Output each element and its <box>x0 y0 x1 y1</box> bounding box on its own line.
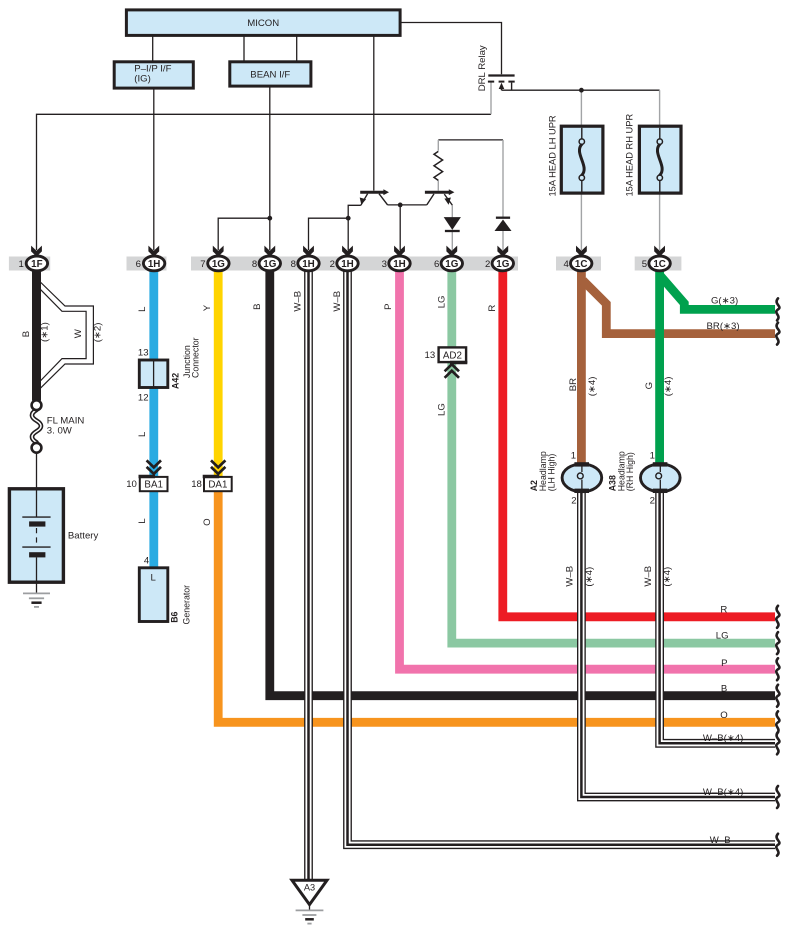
connector oval 2 1H <box>337 256 358 271</box>
svg-text:P: P <box>383 303 394 309</box>
svg-text:W–B(∗4): W–B(∗4) <box>703 733 744 744</box>
fuse 15A HEAD RH UPR box <box>639 126 681 193</box>
svg-text:BA1: BA1 <box>144 480 163 491</box>
node arrow 1F <box>31 246 42 257</box>
wire BEAN I/F to connector 8 1G <box>269 86 271 250</box>
relay DRL: gate bar <box>488 74 514 76</box>
relay DRL: middle element bar <box>499 81 505 83</box>
svg-text:MICON: MICON <box>247 18 279 29</box>
svg-text:L: L <box>137 518 148 524</box>
svg-text:15A HEAD LH UPR: 15A HEAD LH UPR <box>547 115 557 196</box>
svg-text:R: R <box>720 605 727 616</box>
break symbol W-B(*4) b <box>776 786 779 808</box>
wire MICON to BEAN I/F left <box>243 35 245 61</box>
node arrow 8 1H <box>303 246 314 257</box>
svg-text:18: 18 <box>191 479 202 490</box>
headlamp A38 (RH High) <box>641 464 681 492</box>
connector oval 5 1C <box>649 256 670 271</box>
svg-text:1H: 1H <box>393 259 406 270</box>
ground A3 triangle <box>292 880 327 904</box>
wire relay control to connector 1 1F <box>37 114 492 250</box>
wire W-B from connector 8 1H to ground A3 <box>304 269 313 880</box>
wire relay output to fuses <box>502 89 660 91</box>
wire Y yellow from connector 7 1G to DA1 <box>214 269 223 478</box>
node arrow 5 1C <box>654 246 665 257</box>
generator B6 box <box>139 568 168 622</box>
wire W option bypass outline at 1F <box>40 282 93 388</box>
connector oval 6 1G <box>441 256 462 271</box>
svg-text:5: 5 <box>642 259 647 270</box>
transistor Q2 emitter diagonal with arrow <box>444 194 452 205</box>
connector oval 7 1G <box>208 256 229 271</box>
wire relay output to fuse LH (gray) <box>580 90 582 126</box>
svg-text:1C: 1C <box>575 259 588 270</box>
wire junction to connector 3 1H <box>399 205 401 250</box>
svg-text:(∗1): (∗1) <box>40 322 51 342</box>
svg-text:8: 8 <box>252 259 257 270</box>
break symbol W-B(*4) a <box>776 732 779 754</box>
svg-text:2: 2 <box>330 259 335 270</box>
box P-I/P I/F (IG) <box>114 62 193 88</box>
svg-text:O: O <box>202 518 213 525</box>
svg-text:B: B <box>21 331 32 337</box>
wire B thick from connector 1 1F to fusible link <box>32 269 41 401</box>
wire resistor to diode D2 <box>438 139 503 141</box>
wire Q1 collector to Q2 <box>388 204 427 206</box>
wire L cyan from connector 6 1H to generator <box>149 269 158 569</box>
wire P pink from connector 3 1H to right edge <box>400 269 776 669</box>
connector BA1 box <box>140 477 168 491</box>
svg-text:DA1: DA1 <box>208 480 227 491</box>
wire MICON to DRL relay drain <box>400 23 501 75</box>
svg-text:G(∗3): G(∗3) <box>711 296 738 307</box>
break symbol O <box>776 711 779 733</box>
diode D2 (cathode up) <box>496 217 510 219</box>
svg-text:(∗4): (∗4) <box>663 377 674 397</box>
svg-text:7: 7 <box>200 259 205 270</box>
svg-text:2: 2 <box>485 259 490 270</box>
transistor Q2 base diagonal <box>427 194 434 205</box>
junction dot relay output <box>579 88 584 93</box>
svg-text:4: 4 <box>144 555 150 566</box>
svg-text:L: L <box>137 431 148 437</box>
wire diode D2 top lead (gray) <box>502 140 504 218</box>
svg-text:1C: 1C <box>653 259 666 270</box>
svg-text:3. 0W: 3. 0W <box>47 426 73 437</box>
wire W-B from headlamp LH to right edge <box>581 491 775 797</box>
svg-text:1G: 1G <box>496 259 509 270</box>
svg-text:(IG): (IG) <box>134 74 151 85</box>
svg-text:W–B: W–B <box>293 291 304 312</box>
svg-text:(∗4): (∗4) <box>587 377 598 397</box>
wire R red from connector 2 1G to right edge <box>503 269 775 617</box>
transistor Q1 bar <box>360 191 383 194</box>
svg-text:W: W <box>73 328 84 338</box>
chevrons into AD2 (upward) <box>445 364 459 371</box>
svg-text:1: 1 <box>571 451 576 462</box>
transistor Q2 bar <box>425 191 449 194</box>
break symbol R <box>776 606 779 628</box>
svg-text:W–B: W–B <box>332 291 343 312</box>
headlamp A2 (LH High) <box>562 464 602 492</box>
wire BR(*3) branch to right edge <box>583 281 775 334</box>
node arrow 6 1H <box>148 246 159 257</box>
svg-text:1G: 1G <box>445 259 458 270</box>
svg-text:DRL Relay: DRL Relay <box>477 45 488 91</box>
junction connector A42 box <box>139 360 168 388</box>
wire battery to ground <box>36 557 38 593</box>
svg-text:Battery: Battery <box>68 531 99 542</box>
wire O orange from DA1 to right edge <box>218 490 775 722</box>
svg-text:L: L <box>137 306 148 312</box>
wire relay output to fuse RH (gray) <box>659 90 661 126</box>
connector oval 6 1H <box>143 256 164 271</box>
svg-text:13: 13 <box>138 348 149 359</box>
svg-text:1H: 1H <box>148 259 161 270</box>
svg-text:1H: 1H <box>302 259 315 270</box>
svg-text:B: B <box>252 303 263 309</box>
connector arrows into row <box>31 246 665 257</box>
break symbol LG <box>776 632 779 654</box>
chevrons into DA1 <box>211 460 225 467</box>
node arrow 2 1H <box>342 246 353 257</box>
junction dot Q1 collector <box>398 203 403 208</box>
svg-text:BR(∗3): BR(∗3) <box>707 321 740 332</box>
relay DRL: body arrow up <box>499 83 505 89</box>
connector band 1G/1H group <box>191 257 518 271</box>
svg-text:W–B(∗4): W–B(∗4) <box>703 787 744 798</box>
svg-text:(∗4): (∗4) <box>584 567 595 587</box>
wire resistor bottom lead (gray) <box>437 180 439 190</box>
svg-text:P: P <box>721 658 727 669</box>
svg-text:Connector: Connector <box>191 337 201 378</box>
svg-text:R: R <box>487 305 498 312</box>
svg-text:10: 10 <box>126 479 137 490</box>
transistor Q1 collector diagonal <box>379 194 388 205</box>
box BEAN I/F <box>230 62 311 86</box>
svg-text:1H: 1H <box>341 259 354 270</box>
svg-text:12: 12 <box>138 392 149 403</box>
svg-text:W–B: W–B <box>565 566 576 587</box>
svg-text:L: L <box>151 573 157 584</box>
wire W-B from connector 2 1H to right edge <box>348 269 776 845</box>
wire fuse LH to connector 4 1C (gray) <box>580 193 582 250</box>
connector band 1H <box>127 257 167 271</box>
chevrons into BA1 <box>147 460 161 467</box>
node arrow 8 1G <box>264 246 275 257</box>
break symbol W-B <box>776 834 779 856</box>
node arrow 4 1C <box>576 246 587 257</box>
svg-text:2: 2 <box>571 496 576 507</box>
fuse 15A HEAD LH UPR box <box>561 126 603 193</box>
svg-text:A42: A42 <box>170 373 180 389</box>
wire G(*3) branch to right edge <box>661 276 776 309</box>
connector oval 1 1F <box>26 256 47 271</box>
diode D1 (cathode down) <box>444 217 461 230</box>
connector band 1F <box>9 257 50 271</box>
node arrow 2 1G <box>497 246 508 257</box>
wire fuse RH to connector 5 1C (gray) <box>659 193 661 250</box>
node arrow 3 1H <box>394 246 405 257</box>
node arrow 7 1G <box>213 246 224 257</box>
resistor R1 <box>434 151 443 180</box>
svg-text:3: 3 <box>382 259 387 270</box>
wire Q1 emitter junction runs <box>348 205 361 250</box>
box MICON <box>126 10 400 36</box>
wire junction to connector 8 1H <box>309 218 349 250</box>
svg-text:13: 13 <box>425 350 436 361</box>
wire BR brown from connector 4 1C to headlamp LH <box>577 269 586 464</box>
svg-text:LG: LG <box>437 403 448 416</box>
connector AD2 box <box>439 347 467 362</box>
break symbol B <box>776 685 779 707</box>
svg-text:6: 6 <box>434 259 439 270</box>
wire W-B from headlamp RH to right edge <box>660 491 775 743</box>
svg-text:BEAN I/F: BEAN I/F <box>250 70 290 81</box>
wire G green from connector 5 1C to headlamp RH <box>655 269 664 464</box>
svg-text:2: 2 <box>650 496 655 507</box>
svg-text:(LH High): (LH High) <box>547 454 557 492</box>
svg-text:B: B <box>721 684 727 695</box>
wire fusible link to battery <box>36 453 38 517</box>
connector oval 8 1G <box>259 256 280 271</box>
svg-text:1F: 1F <box>31 259 42 270</box>
connector oval 2 1G <box>492 256 513 271</box>
relay DRL: right element bar <box>508 81 514 83</box>
junction dot Q1 emitter <box>346 216 351 221</box>
wire P-I/P I/F to connector 6 1H <box>153 88 155 250</box>
fusible link FL MAIN 3.0W <box>32 410 41 443</box>
svg-text:A3: A3 <box>304 883 315 893</box>
svg-text:W–B: W–B <box>643 566 654 587</box>
wire diode D2 bottom lead (gray) <box>502 231 504 250</box>
connector oval 8 1H <box>298 256 319 271</box>
svg-text:8: 8 <box>291 259 296 270</box>
svg-text:O: O <box>720 710 727 721</box>
svg-text:G: G <box>644 382 655 389</box>
svg-text:1G: 1G <box>263 259 276 270</box>
svg-text:(∗2): (∗2) <box>92 323 103 343</box>
svg-text:15A HEAD RH UPR: 15A HEAD RH UPR <box>625 114 635 197</box>
svg-text:AD2: AD2 <box>443 350 462 361</box>
junction dot BEAN branch <box>267 216 272 221</box>
connector band 5 1C <box>635 257 682 271</box>
connector DA1 box <box>204 477 232 491</box>
wire MICON to BEAN I/F right <box>296 35 298 61</box>
svg-text:(RH High): (RH High) <box>625 452 635 491</box>
wire resistor top lead (gray) <box>437 140 439 151</box>
wire relay gate stub (gray) <box>490 83 492 115</box>
wire diode D1 bottom lead (gray) <box>451 231 453 250</box>
wire Q2 emitter to diode D1 (gray) <box>451 205 453 218</box>
wire MICON to transistor Q1 base <box>373 35 375 190</box>
wire LG from connector 6 1G to right edge <box>452 269 775 643</box>
connector oval 3 1H <box>389 256 410 271</box>
connector oval 4 1C <box>571 256 592 271</box>
relay DRL: left element bar <box>488 81 494 83</box>
break symbol P <box>776 658 779 680</box>
svg-text:6: 6 <box>136 259 141 270</box>
wire branch to connector 7 1G <box>218 218 270 250</box>
break symbol BR(*3) <box>776 323 779 345</box>
svg-text:LG: LG <box>716 631 729 642</box>
connector band 4 1C <box>556 257 601 271</box>
wire MICON to P-I/P I/F <box>152 35 154 61</box>
relay DRL: right element stub <box>511 83 513 91</box>
wire B black from connector 8 1G to right edge <box>270 269 775 696</box>
svg-text:B6: B6 <box>170 611 180 622</box>
battery internal plates <box>36 489 38 517</box>
svg-text:1G: 1G <box>212 259 225 270</box>
svg-text:4: 4 <box>564 259 570 270</box>
svg-text:1: 1 <box>18 259 23 270</box>
svg-text:1: 1 <box>650 451 655 462</box>
svg-text:LG: LG <box>437 295 448 308</box>
svg-text:BR: BR <box>568 378 579 391</box>
svg-text:(∗4): (∗4) <box>662 567 673 587</box>
svg-text:Generator: Generator <box>182 585 192 625</box>
node arrow 6 1G <box>446 246 457 257</box>
break symbol G(*3) <box>776 298 779 320</box>
transistor Q1 emitter diagonal with arrow <box>361 194 368 206</box>
ground below battery <box>23 592 50 594</box>
svg-text:Y: Y <box>202 304 213 311</box>
battery box <box>9 489 63 582</box>
svg-text:W–B: W–B <box>710 835 731 846</box>
